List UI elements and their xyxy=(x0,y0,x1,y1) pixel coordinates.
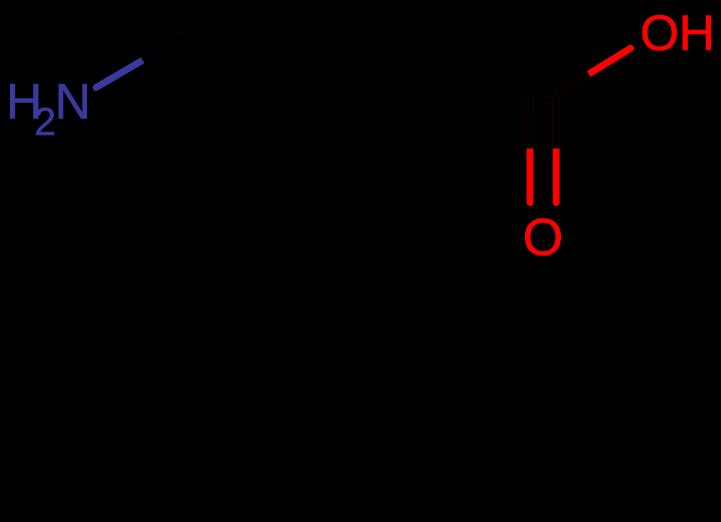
svg-text:2: 2 xyxy=(34,101,56,144)
svg-text:N: N xyxy=(55,74,91,130)
label H2N (amine) xyxy=(6,74,91,144)
bond CH2-C1 xyxy=(189,33,283,87)
bond C1-CH2b xyxy=(283,87,413,160)
bond C-OH (red half at O, black half at C) xyxy=(543,48,630,103)
carbon skeleton (black bonds of cyclohexane ring and CH2 links) xyxy=(189,33,543,303)
bond N-CH2 (blue half at N, black half at C) xyxy=(96,30,193,88)
label OH (hydroxyl) xyxy=(640,5,715,61)
svg-text:O: O xyxy=(523,209,563,267)
cyclohexane ring xyxy=(189,87,376,303)
svg-text:O: O xyxy=(640,5,679,61)
bond CH2b-Ccarboxyl xyxy=(413,96,543,160)
double bond C=O line 1 (left) xyxy=(527,91,534,203)
svg-text:H: H xyxy=(679,5,715,61)
double bond C=O line 2 (right) xyxy=(553,95,560,202)
